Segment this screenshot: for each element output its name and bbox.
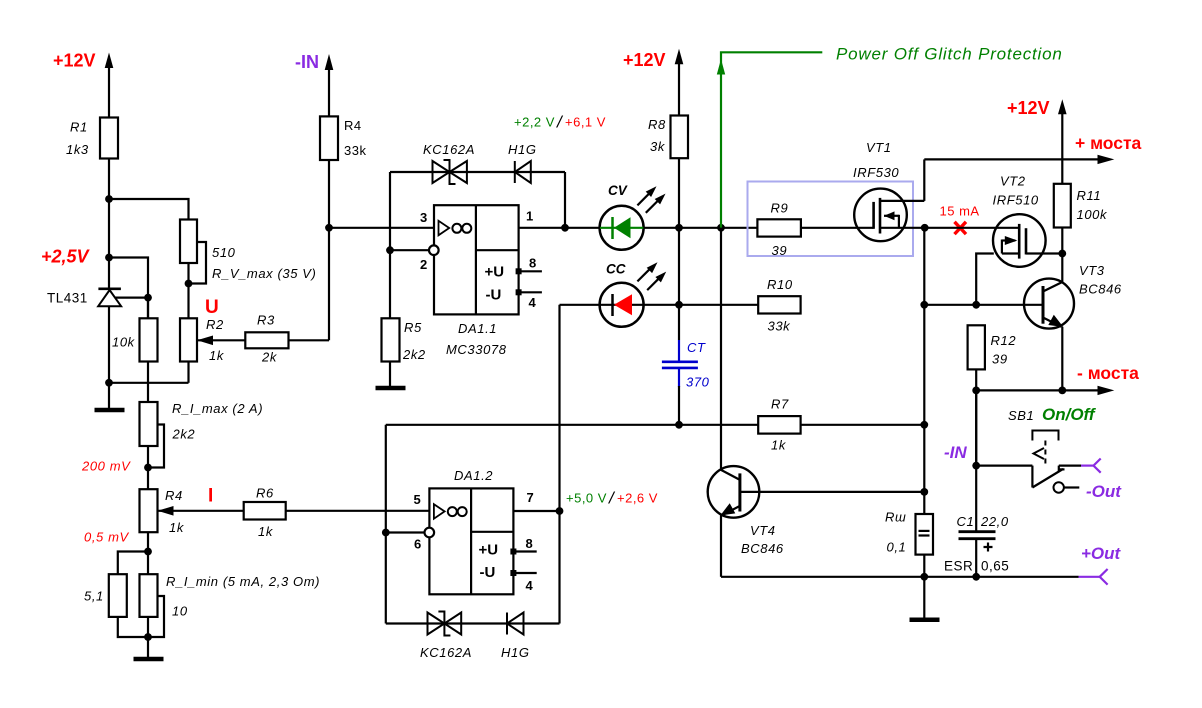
wire DA1.2 left vertical	[385, 425, 387, 624]
svg-text:R6: R6	[256, 486, 274, 501]
node CC/CT column	[675, 301, 683, 309]
node output DA1.1	[561, 224, 569, 232]
pin 2 circle	[429, 245, 439, 255]
svg-text:-IN: -IN	[295, 52, 319, 72]
svg-text:5: 5	[414, 492, 421, 507]
node VT2 gate on R11 column	[1058, 250, 1066, 258]
svg-text:39: 39	[992, 352, 1008, 367]
resistor 5,1	[109, 574, 127, 617]
node bottom parallel	[144, 633, 152, 641]
svg-text:33k: 33k	[768, 319, 792, 334]
wire R1 bottom to TL431	[108, 159, 110, 291]
connector to -Out upper	[1081, 459, 1101, 473]
wire R9 to VT1 gate	[801, 227, 874, 229]
node TL431 ref junction	[144, 294, 152, 302]
svg-text:1k: 1k	[209, 348, 225, 363]
node -моста left	[972, 387, 980, 395]
wire VT1 drain up to bridge row	[923, 159, 925, 201]
wire R8 bottom to CV row	[678, 158, 680, 228]
svg-text:VT2: VT2	[1000, 174, 1026, 189]
capacitor C1	[959, 532, 996, 577]
svg-text:510: 510	[212, 245, 236, 260]
svg-text:8: 8	[529, 256, 536, 271]
wire R11 bottom to VT3 collector	[1061, 228, 1063, 284]
svg-text:VT1: VT1	[866, 140, 892, 155]
svg-text:8: 8	[526, 536, 533, 551]
node glitch column	[717, 224, 725, 232]
node pin2 junction	[386, 246, 394, 254]
pin 4 stub	[516, 289, 542, 295]
wire VT3 base row	[924, 304, 1043, 306]
op-amp DA1.1 body	[434, 205, 519, 314]
svg-text:15 mA: 15 mA	[940, 204, 980, 219]
wire pin7 out	[513, 510, 559, 512]
wire VT3 emitter down	[1061, 327, 1063, 391]
node below R4	[144, 548, 152, 556]
wire R4 bottom to junction	[147, 532, 149, 574]
svg-text:+2,5V: +2,5V	[41, 247, 91, 267]
svg-text:+6,1 V: +6,1 V	[565, 115, 606, 130]
connector +Out	[1079, 569, 1108, 585]
wire 5,1 bottom	[118, 617, 148, 637]
svg-text:+2,6 V: +2,6 V	[617, 491, 658, 506]
svg-text:4: 4	[529, 295, 537, 310]
svg-text:5,1: 5,1	[84, 589, 104, 604]
node CT on feedback row	[675, 421, 683, 429]
svg-text:R2: R2	[206, 317, 224, 332]
svg-text:R4: R4	[165, 488, 183, 503]
svg-text:R4: R4	[344, 118, 362, 133]
svg-text:-IN: -IN	[944, 443, 967, 462]
wire VT1 source to VT2 drain	[925, 227, 1020, 229]
potentiometer R4 (1k current set)	[140, 489, 158, 532]
label ESR 0,65	[944, 559, 1009, 574]
label +5,0 V / +2,6 V	[566, 489, 658, 508]
wire to DA1.1 pin 3	[329, 227, 434, 229]
svg-text:R8: R8	[648, 117, 666, 132]
wire R2 bottom to bus	[187, 362, 189, 383]
pin 8 stub	[510, 549, 536, 555]
wire 510 bottom to R2	[187, 263, 189, 318]
svg-text:Power Off Glitch Protection: Power Off Glitch Protection	[836, 45, 1063, 64]
svg-text:SB1: SB1	[1008, 408, 1034, 423]
svg-text:U: U	[205, 297, 219, 318]
svg-text:+5,0 V: +5,0 V	[566, 491, 607, 506]
wire glitch column black down	[720, 228, 722, 470]
svg-text:CT: CT	[687, 340, 706, 355]
resistor R12	[968, 325, 985, 369]
svg-text:IRF530: IRF530	[853, 165, 899, 180]
510 wiper tap	[189, 242, 206, 284]
wire - bridge row	[976, 386, 1114, 395]
svg-text:MC33078: MC33078	[446, 342, 507, 357]
wire DA1.2 protection bottom	[386, 622, 560, 624]
wire protection right vertical	[564, 172, 566, 228]
wire +12V to R11	[1061, 106, 1063, 184]
zener KC162A (DA1.2)	[428, 612, 462, 636]
resistor 10k	[140, 318, 158, 361]
node VT1 source	[921, 224, 929, 232]
power -IN (input)	[295, 52, 333, 72]
pin 4 stub	[510, 570, 536, 576]
resistor R10	[758, 296, 800, 313]
svg-text:7: 7	[527, 490, 534, 505]
svg-text:6: 6	[414, 537, 421, 552]
svg-text:R10: R10	[767, 277, 793, 292]
resistor 510 (R_V_max)	[180, 220, 197, 264]
node pin3 branch	[325, 224, 333, 232]
transistor VT4 BC846	[708, 466, 760, 518]
node 200mV tap	[144, 464, 152, 472]
svg-text:+12V: +12V	[1007, 98, 1050, 118]
svg-text:-U: -U	[486, 287, 502, 304]
svg-text:KC162A: KC162A	[423, 142, 475, 157]
wire DA1.2 pin6 from left vertical	[386, 531, 425, 533]
LED CV	[600, 186, 666, 250]
node -IN	[972, 462, 980, 470]
resistor R1	[100, 118, 118, 159]
svg-text:0,65: 0,65	[981, 559, 1009, 574]
svg-text:1k: 1k	[258, 524, 274, 539]
svg-text:R_V_max (35 V): R_V_max (35 V)	[212, 266, 317, 281]
svg-text:+Out: +Out	[1081, 544, 1122, 563]
wire +2,5V node to TL431 ref	[109, 258, 148, 319]
pin 8 stub	[516, 268, 542, 274]
svg-text:0,5 mV: 0,5 mV	[84, 530, 130, 545]
svg-text:2k2: 2k2	[402, 347, 426, 362]
ground (R5)	[376, 386, 406, 391]
zener KC162A (DA1.1)	[433, 160, 467, 184]
wire anode bus to R2 bottom	[109, 382, 189, 384]
wire R8 column CV to CC	[678, 228, 680, 305]
resistor R6	[244, 502, 286, 520]
resistor R9	[757, 219, 801, 236]
wire -IN to R4	[328, 62, 330, 116]
node R12 column top	[972, 301, 980, 309]
transistor VT3 BC846	[1024, 279, 1074, 329]
svg-text:KC162A: KC162A	[420, 645, 472, 660]
wire R12 bottom	[975, 369, 977, 465]
potentiometer R2	[180, 318, 197, 361]
svg-text:3k: 3k	[650, 139, 666, 154]
diode H1G (DA1.2)	[507, 613, 524, 635]
svg-text:DA1.2: DA1.2	[454, 468, 493, 483]
svg-text:200 mV: 200 mV	[81, 459, 131, 474]
svg-text:33k: 33k	[344, 143, 366, 158]
svg-text:CC: CC	[606, 262, 626, 277]
wire -IN column	[975, 390, 977, 531]
svg-text:3: 3	[420, 210, 427, 225]
svg-text:Rш: Rш	[885, 510, 906, 525]
wire R5 to ground	[389, 362, 391, 387]
wire DA1.1 pin1 out	[519, 227, 600, 229]
node pin6 junction	[382, 529, 390, 537]
svg-text:2k: 2k	[261, 350, 278, 365]
node R8 bottom	[675, 224, 683, 232]
wire CC to R10	[643, 304, 758, 306]
green glitch wire	[717, 52, 823, 228]
wire VT4 emitter down	[720, 514, 722, 577]
node TL431 anode bus	[105, 379, 113, 387]
wire shunt column R10 to VT4 base	[923, 305, 925, 492]
wire R3 to -IN column	[289, 339, 330, 341]
node pin7 junction	[556, 507, 564, 515]
wire DA1.1 pin2 from left vertical	[390, 249, 429, 251]
svg-text:On/Off: On/Off	[1042, 405, 1097, 424]
power +12V (right)	[1007, 98, 1067, 118]
wire shunt column to Rsh	[923, 492, 925, 514]
wire TL431 anode down	[108, 306, 110, 408]
svg-text:2: 2	[420, 257, 427, 272]
svg-text:IRF510: IRF510	[993, 193, 1039, 208]
svg-text:R11: R11	[1077, 188, 1102, 203]
wire R_I_min bottom to ground	[147, 617, 149, 657]
wire R_I_max bottom to R4	[147, 446, 149, 489]
svg-text:4: 4	[526, 578, 534, 593]
shunt resistor Rsh	[916, 514, 934, 555]
svg-text:10: 10	[172, 604, 188, 619]
wire R7 right to shunt column	[801, 424, 925, 426]
R4 wiper arrow from R6	[158, 506, 244, 516]
wire VT4 base to shunt column	[740, 491, 924, 493]
X mark	[955, 222, 967, 234]
svg-text:I: I	[208, 486, 213, 507]
svg-text:1k: 1k	[169, 520, 185, 535]
resistor R8	[671, 116, 689, 159]
ground (R_I_min)	[134, 657, 164, 662]
svg-text:2k2: 2k2	[172, 427, 196, 442]
svg-text:-Out: -Out	[1086, 482, 1122, 501]
wire TL431 ref	[116, 297, 149, 299]
node 510 tap	[185, 280, 193, 288]
wire branch to 5,1	[118, 552, 148, 575]
R_I_max wiper tap	[148, 425, 164, 468]
wire DA1.2 out vertical	[558, 305, 560, 624]
capacitor CT	[662, 340, 698, 387]
svg-text:BC846: BC846	[741, 541, 784, 556]
svg-text:C1: C1	[957, 514, 975, 529]
svg-text:39: 39	[772, 243, 788, 258]
svg-text:1: 1	[526, 209, 533, 224]
svg-text:+U: +U	[485, 264, 505, 281]
svg-text:TL431: TL431	[47, 291, 88, 306]
wire + bridge row	[924, 155, 1114, 164]
resistor R5	[382, 318, 400, 361]
svg-text:22,0: 22,0	[980, 514, 1009, 529]
op-amp DA1.2 body	[429, 488, 513, 594]
LED CC	[600, 262, 667, 327]
power +12V (center)	[623, 49, 683, 70]
svg-text:1k3: 1k3	[66, 142, 89, 157]
wire +12V to R8	[678, 56, 680, 116]
svg-text:100k: 100k	[1077, 207, 1108, 222]
resistor R4 (33k)	[320, 116, 338, 160]
svg-text:- моста: - моста	[1077, 363, 1139, 383]
resistor R7	[758, 416, 800, 434]
svg-text:R12: R12	[991, 333, 1017, 348]
svg-text:R_I_max (2 A): R_I_max (2 A)	[172, 401, 263, 416]
node rail Rsh	[920, 573, 928, 581]
wire R4 bottom down	[328, 160, 330, 340]
node branch-510	[105, 195, 113, 203]
svg-text:R_I_min (5 mA, 2,3 Om): R_I_min (5 mA, 2,3 Om)	[166, 574, 320, 589]
svg-text:ESR: ESR	[944, 559, 973, 574]
ground (TL431)	[95, 408, 125, 413]
resistor R11	[1054, 184, 1071, 228]
wire CT bottom	[678, 386, 680, 425]
svg-text:R1: R1	[70, 120, 88, 135]
transistor VT1 IRF530	[854, 189, 925, 242]
wire VT2 source left and down	[976, 254, 994, 305]
wire +12V to R1	[108, 60, 110, 118]
node rail C1	[972, 573, 980, 581]
wire 10k top from ref junction	[147, 298, 149, 319]
wire branch to 510 top	[109, 199, 189, 220]
resistor R3	[245, 332, 288, 348]
wire DA1.1 protection top	[390, 171, 565, 173]
svg-text:VT3: VT3	[1079, 263, 1105, 278]
node +2,5V	[105, 254, 113, 262]
svg-text:R9: R9	[771, 201, 789, 216]
svg-text:0,1: 0,1	[887, 540, 907, 555]
switch SB1	[976, 431, 1081, 493]
svg-text:VT4: VT4	[750, 523, 776, 538]
svg-text:+12V: +12V	[623, 50, 666, 70]
potentiometer R_I_min	[140, 574, 158, 617]
wire Rsh bottom to rail	[923, 555, 925, 577]
diode H1G (DA1.1)	[515, 161, 531, 183]
wire CT column	[678, 305, 680, 340]
svg-text:H1G: H1G	[501, 645, 530, 660]
svg-text:R3: R3	[257, 313, 275, 328]
svg-text:-U: -U	[480, 564, 496, 581]
svg-text:R7: R7	[771, 397, 789, 412]
svg-text:+ моста: + моста	[1075, 133, 1142, 153]
wire R3 to R2 wiper arrow	[197, 336, 245, 346]
label +2,2 V / +6,1 V	[514, 113, 606, 132]
svg-text:BC846: BC846	[1079, 282, 1122, 297]
svg-text:+12V: +12V	[53, 51, 96, 71]
node VT4 base shunt column	[920, 488, 928, 496]
svg-text:R5: R5	[404, 320, 422, 335]
wire bottom rail	[721, 576, 1079, 578]
wire CC corner from DA1.2 out	[560, 304, 601, 306]
svg-text:CV: CV	[608, 183, 628, 198]
svg-text:DA1.1: DA1.1	[458, 321, 497, 336]
ground (output rail)	[910, 577, 940, 620]
svg-text:+2,2 V: +2,2 V	[514, 115, 555, 130]
node R7 shunt column	[920, 421, 928, 429]
power +12V (left rail)	[53, 51, 113, 71]
transistor VT2 IRF510	[993, 214, 1064, 267]
wire R6 to DA1.2 pin 5	[286, 510, 430, 512]
svg-text:1k: 1k	[771, 438, 787, 453]
wire 10k bottom through bus to R_I_max	[147, 362, 149, 403]
potentiometer R_I_max	[140, 402, 158, 446]
wire feedback row (R7/CT row)	[386, 424, 758, 426]
wire CV to R9	[643, 227, 757, 229]
svg-text:+U: +U	[479, 542, 499, 559]
R_I_min wiper tap	[148, 596, 164, 637]
node VT3 emitter -моста	[1058, 387, 1066, 395]
svg-text:10k: 10k	[112, 335, 136, 350]
selection frame	[748, 182, 914, 257]
pin 6 circle	[425, 528, 435, 538]
node R10 shunt column	[920, 301, 928, 309]
svg-text:370: 370	[686, 375, 710, 390]
svg-text:H1G: H1G	[508, 142, 537, 157]
shunt regulator TL431	[47, 289, 121, 306]
wire DA1.1 left vertical (feedback)	[389, 172, 391, 318]
wire shunt column top	[923, 228, 925, 305]
